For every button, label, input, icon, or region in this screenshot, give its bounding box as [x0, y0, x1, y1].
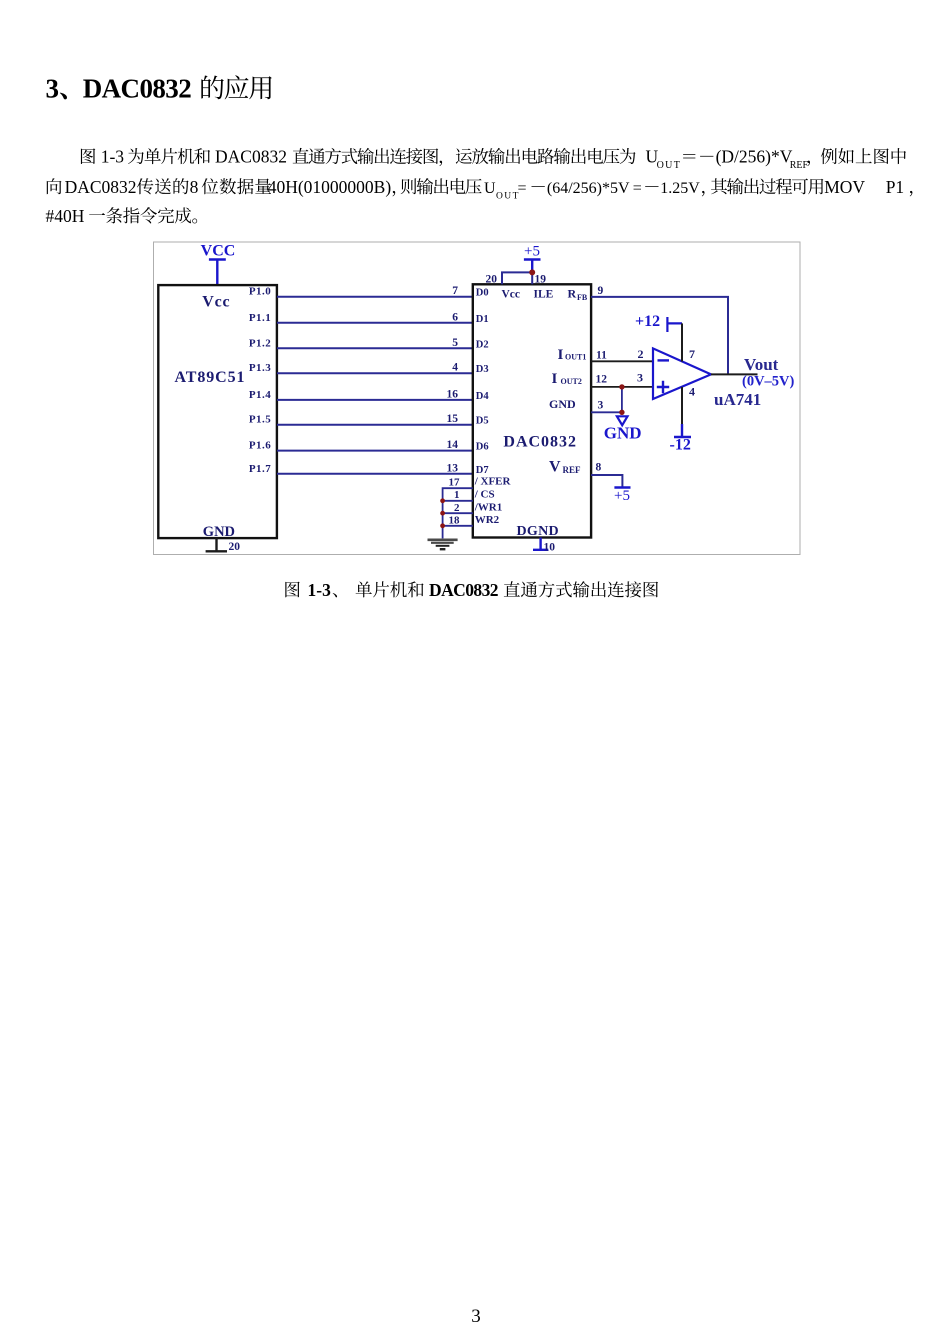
svg-text:16: 16	[447, 388, 459, 400]
heading: 3、DAC0832 的应用	[46, 73, 272, 103]
svg-text:13: 13	[447, 462, 459, 474]
wire pin 4 to -12	[682, 385, 695, 425]
page number	[471, 1306, 481, 1327]
junction /CS	[440, 498, 445, 503]
wire P1.2 to D2	[277, 337, 473, 349]
svg-text:I: I	[552, 371, 558, 387]
svg-text:V: V	[549, 458, 561, 475]
svg-text:P1: P1	[886, 177, 904, 197]
junction GND node	[619, 410, 624, 415]
svg-text:1-3: 1-3	[101, 147, 125, 167]
wire P1.7 to D7	[277, 462, 473, 474]
svg-text:+5: +5	[614, 488, 630, 504]
svg-text:1.25V: 1.25V	[660, 180, 700, 197]
svg-text:D0: D0	[476, 288, 489, 299]
svg-text:9: 9	[598, 285, 604, 297]
U2 label GND	[549, 397, 576, 411]
svg-text:DGND: DGND	[517, 524, 559, 539]
power symbol +12 (op-amp V+)	[635, 313, 682, 332]
U2 label DGND and pin 10	[517, 524, 559, 554]
svg-text:/ CS: / CS	[474, 488, 495, 500]
svg-text:FB: FB	[577, 293, 588, 302]
junction WR2	[440, 523, 445, 528]
svg-text:DAC0832: DAC0832	[215, 147, 287, 167]
wire /CS pin 1	[443, 500, 473, 502]
ground symbol GND (analog)	[604, 416, 642, 442]
svg-text:Vcc: Vcc	[202, 294, 230, 311]
svg-text:(0V–5V): (0V–5V)	[742, 374, 795, 390]
svg-text:1: 1	[454, 489, 460, 501]
svg-text:REF: REF	[563, 465, 582, 475]
svg-text:DAC0832: DAC0832	[429, 580, 499, 600]
wire P1.0 to D0	[277, 285, 473, 297]
wire P1.4 to D4	[277, 388, 473, 400]
svg-text:6: 6	[452, 311, 458, 323]
svg-text:Vcc: Vcc	[502, 289, 521, 301]
power symbol -12 (op-amp V-)	[670, 424, 692, 454]
svg-text:OUT1: OUT1	[565, 353, 586, 362]
wire P1.5 to D5	[277, 413, 473, 425]
svg-text:R: R	[568, 287, 577, 301]
svg-text:/WR1: /WR1	[474, 502, 503, 514]
svg-text:AT89C51: AT89C51	[175, 369, 246, 386]
power symbol +5 (DAC supply)	[524, 244, 541, 273]
svg-text:P1.7: P1.7	[249, 463, 271, 475]
svg-text:OUT2: OUT2	[561, 377, 582, 386]
svg-text:3: 3	[471, 1306, 481, 1327]
svg-text:4: 4	[689, 385, 695, 399]
wire /XFER pin 17 to ground rail	[443, 488, 473, 538]
svg-text:-12: -12	[670, 437, 691, 454]
svg-text:19: 19	[535, 274, 547, 286]
paragraph line 2	[47, 177, 913, 202]
DAC U2 DAC0832	[473, 284, 591, 537]
svg-text:3: 3	[637, 371, 643, 385]
svg-text:D2: D2	[476, 339, 489, 350]
wire op-amp output Vout	[711, 373, 758, 375]
svg-text:P1.1: P1.1	[249, 312, 271, 324]
svg-text:D7: D7	[476, 465, 489, 476]
wire IOUT1 pin 11 to op-amp pin 2	[591, 347, 653, 361]
svg-text:OUT: OUT	[657, 160, 680, 171]
svg-text:D3: D3	[476, 364, 489, 375]
svg-text:17: 17	[449, 476, 461, 488]
svg-text:12: 12	[596, 374, 608, 386]
svg-text:7: 7	[452, 285, 458, 297]
paragraph line 3	[46, 206, 198, 226]
svg-text:3: 3	[46, 73, 60, 103]
wire IOUT2 pin 12 to op-amp pin 3	[591, 371, 653, 387]
svg-text:2: 2	[638, 347, 644, 361]
svg-text:4: 4	[452, 362, 458, 374]
svg-text:P1.2: P1.2	[249, 337, 271, 349]
svg-text:40H(01000000B): 40H(01000000B)	[268, 177, 392, 197]
wire +12 to pin 7	[682, 323, 695, 361]
svg-text:D4: D4	[476, 391, 490, 402]
U2 pin labels D0-D7	[476, 288, 490, 476]
svg-text:(64/256)*5V: (64/256)*5V	[547, 180, 630, 197]
svg-text:DAC0832: DAC0832	[503, 433, 577, 450]
ground symbol (digital, hatched)	[428, 540, 458, 549]
wire P1.6 to D6	[277, 439, 473, 451]
svg-text:D6: D6	[476, 442, 489, 453]
svg-text:REF: REF	[790, 160, 809, 171]
junction /WR1	[440, 511, 445, 516]
svg-text:18: 18	[449, 515, 461, 527]
wire RFB pin 9 feedback to op-amp output	[591, 285, 728, 374]
svg-text:VCC: VCC	[201, 242, 236, 259]
svg-text:GND: GND	[549, 397, 576, 411]
svg-text:WR2: WR2	[475, 514, 500, 526]
U1 ground pin 20 stub	[206, 538, 241, 553]
svg-text:P1.4: P1.4	[249, 389, 271, 401]
wire P1.3 to D3	[277, 362, 473, 374]
power symbol +5 (VREF)	[614, 488, 630, 505]
U2 label IOUT2	[552, 371, 582, 387]
svg-text:1-3: 1-3	[308, 580, 332, 600]
wire +5 to pins 20 and 19	[502, 272, 532, 284]
svg-text:#40H: #40H	[46, 206, 85, 226]
wire GND pin 3	[591, 400, 622, 413]
svg-text:=: =	[633, 180, 642, 197]
svg-text:P1.5: P1.5	[249, 414, 271, 426]
paragraph line 1	[81, 147, 906, 172]
svg-text:DAC0832: DAC0832	[83, 73, 192, 103]
U2 label IOUT1	[558, 347, 587, 363]
wire /WR1 pin 2	[443, 512, 473, 514]
svg-text:U: U	[484, 180, 496, 197]
svg-text:P1.3: P1.3	[249, 362, 271, 374]
U2 control pin labels /XFER /CS /WR1 WR2	[449, 476, 512, 527]
svg-text:uA741: uA741	[714, 390, 761, 409]
svg-text:P1.6: P1.6	[249, 440, 271, 452]
U2 top labels Vcc ILE RFB	[502, 287, 588, 303]
svg-text:D5: D5	[476, 416, 489, 427]
wire P1.1 to D1	[277, 311, 473, 323]
svg-text:20: 20	[229, 541, 241, 553]
svg-text:3: 3	[598, 400, 604, 412]
wire VREF pin 8 to +5	[591, 462, 622, 488]
svg-text:OUT: OUT	[496, 191, 519, 201]
svg-text:20: 20	[486, 274, 498, 286]
microcontroller U1 AT89C51	[158, 285, 277, 540]
U2 label VREF	[549, 458, 581, 475]
junction at +5 node	[529, 269, 535, 275]
svg-text:I: I	[558, 347, 564, 363]
svg-text:14: 14	[447, 439, 459, 451]
svg-text:8: 8	[596, 462, 602, 474]
figure frame	[154, 242, 801, 555]
svg-text:5: 5	[452, 337, 458, 349]
svg-text:DAC0832: DAC0832	[65, 177, 137, 197]
svg-text:GND: GND	[604, 424, 642, 443]
U2 pin numbers 20,19	[486, 274, 547, 286]
svg-text:15: 15	[447, 413, 459, 425]
junction IOUT2	[619, 384, 624, 389]
svg-text:(D/256)*V: (D/256)*V	[716, 147, 793, 167]
wire WR2 pin 18	[443, 525, 473, 527]
svg-text:2: 2	[454, 502, 460, 514]
svg-text:P1.0: P1.0	[249, 286, 271, 298]
svg-text:MOV: MOV	[824, 177, 865, 197]
power symbol VCC (AT89C51 supply)	[201, 242, 236, 285]
figure caption	[285, 580, 658, 600]
svg-text:D1: D1	[476, 314, 489, 325]
svg-text:+12: +12	[635, 313, 660, 330]
svg-text:/ XFER: / XFER	[474, 476, 512, 488]
svg-text:=: =	[518, 180, 527, 197]
svg-text:11: 11	[596, 349, 607, 361]
svg-text:ILE: ILE	[534, 289, 554, 301]
svg-text:7: 7	[689, 347, 695, 361]
svg-text:10: 10	[544, 542, 556, 554]
svg-text:Vout: Vout	[744, 355, 779, 374]
U1 pin labels P1.0-P1.7	[249, 286, 271, 475]
svg-text:8: 8	[190, 177, 199, 197]
svg-text:GND: GND	[203, 524, 235, 540]
op-amp U3 uA741	[653, 348, 761, 409]
node Vout label	[742, 355, 795, 390]
wire IOUT2 to GND pin	[621, 387, 623, 412]
svg-text:+5: +5	[524, 244, 540, 260]
